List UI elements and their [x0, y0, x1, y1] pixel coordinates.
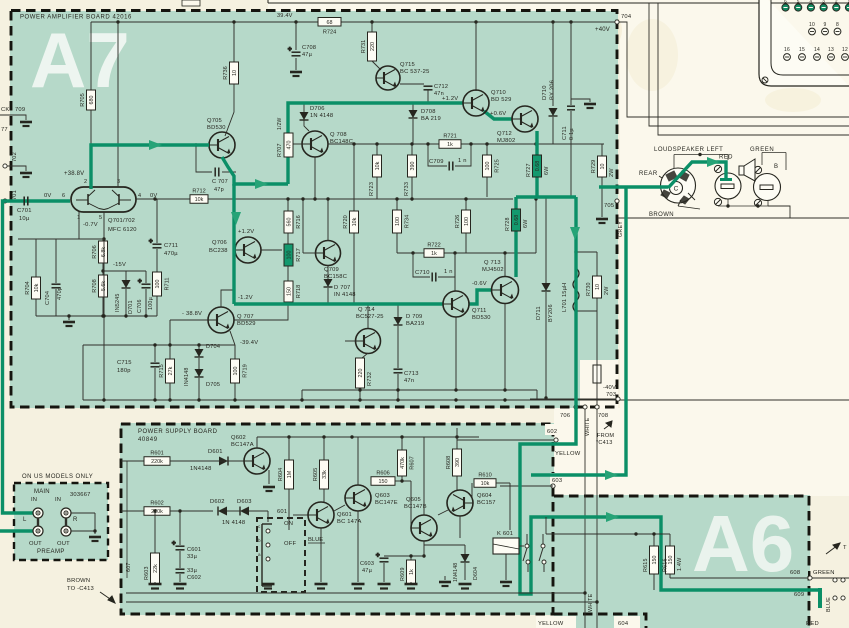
node R722 right: [453, 251, 456, 254]
transistor Q705: [209, 132, 235, 158]
wire Q605 collector up: [423, 505, 425, 515]
wire page border top: [268, 2, 849, 4]
svg-text:C: C: [674, 186, 679, 193]
diode D603: [240, 507, 249, 516]
svg-text:PREAMP: PREAMP: [37, 549, 65, 555]
svg-text:POWER SUPPLY BOARD: POWER SUPPLY BOARD: [138, 429, 218, 435]
resistor R712 10k: [190, 189, 208, 204]
svg-text:1k: 1k: [431, 251, 437, 257]
svg-text:C713: C713: [404, 371, 419, 377]
svg-text:BROWN: BROWN: [649, 212, 674, 218]
wire Q710 collector: [475, 22, 477, 91]
ground C711: [584, 104, 596, 108]
svg-text:MAIN: MAIN: [34, 489, 50, 495]
wire Q604 emitter: [459, 516, 461, 538]
node R715: [168, 343, 171, 346]
node pin5 rail: [102, 314, 105, 317]
node R609: [409, 554, 412, 557]
node jack: [93, 529, 96, 532]
node rail C706: [144, 314, 147, 317]
wire L701-R730 top: [576, 251, 597, 253]
node bottom rail 199: [197, 398, 200, 401]
resistor R730 10: [593, 276, 602, 298]
ground input stage: [63, 322, 75, 326]
terminal 703: [616, 397, 620, 401]
wire rail ground drop: [68, 316, 70, 320]
panel mounting screw: [762, 77, 768, 83]
diode D602: [218, 507, 227, 516]
wire red plug tip (green): [720, 178, 732, 181]
capacitor C713 47n: [394, 369, 403, 373]
panel terminal (green) 4: [820, 4, 827, 11]
wire R616 top: [669, 534, 671, 546]
svg-text:BY 206: BY 206: [550, 80, 556, 100]
svg-text:33µ: 33µ: [187, 554, 198, 560]
svg-text:MJ4502: MJ4502: [482, 267, 504, 273]
svg-text:22k: 22k: [153, 564, 159, 573]
svg-text:703: 703: [606, 392, 616, 398]
svg-text:+: +: [138, 279, 142, 285]
node C711e top: [153, 197, 156, 200]
wire contact down: [527, 564, 529, 572]
wire D604 bottom: [464, 563, 466, 580]
wire R718 to Q707 base: [234, 302, 288, 320]
svg-text:R604: R604: [278, 468, 284, 481]
wire R605 bottom: [323, 489, 325, 502]
svg-text:708: 708: [598, 413, 608, 419]
terminal 603: [551, 484, 555, 488]
transistor Q601: [308, 502, 334, 528]
svg-text:C711: C711: [562, 126, 568, 140]
wire leader green bracket: [762, 152, 786, 154]
wire contact up: [526, 534, 528, 544]
panel terminal 12: [842, 54, 849, 61]
wire Q602 emitter: [268, 470, 270, 484]
wire R731 to Q715: [372, 61, 381, 70]
resistor R723 10k: [373, 155, 382, 177]
svg-text:b: b: [258, 538, 261, 543]
wire C601-C602: [179, 551, 181, 568]
wire C602 bottom: [179, 574, 181, 582]
node bottom rail 170: [168, 398, 171, 401]
node bottom rail 302: [300, 398, 303, 401]
wire R719 bottom: [234, 383, 236, 400]
wire D707 bottom: [327, 288, 329, 304]
wire panel lead B: [649, 3, 849, 126]
screw terminal: [714, 198, 721, 205]
wire C715 top: [154, 345, 156, 362]
panel terminal (green) 1: [782, 4, 789, 11]
svg-text:R609: R609: [400, 567, 406, 581]
svg-text:L701 15µH: L701 15µH: [562, 283, 568, 312]
wire rail drop: [301, 390, 303, 400]
svg-text:Q602: Q602: [231, 435, 246, 441]
wire R733 top: [411, 144, 413, 155]
svg-text:608: 608: [790, 570, 800, 576]
wire R705 top: [90, 22, 92, 90]
arrow from C413: [604, 421, 612, 429]
svg-text:10: 10: [595, 284, 601, 290]
svg-text:R719: R719: [243, 364, 249, 377]
wire pin3 to +40V rail: [117, 22, 119, 187]
resistor R729 10: [591, 156, 607, 177]
panel terminal 16: [784, 54, 791, 61]
node bottom rail 155: [153, 398, 156, 401]
svg-text:BD530: BD530: [207, 125, 226, 131]
wire Q709 base: [303, 252, 316, 254]
wire from terminal 704 to edge: [617, 22, 849, 117]
svg-text:BA 219: BA 219: [421, 116, 441, 122]
node rail D701: [124, 314, 127, 317]
signal arrow A6: [606, 512, 619, 522]
wire stub: [370, 480, 372, 482]
svg-text:D604: D604: [473, 567, 479, 580]
svg-text:150: 150: [652, 556, 658, 565]
svg-text:602: 602: [547, 429, 557, 435]
wire -1.2V rail (green): [234, 302, 443, 305]
svg-text:R731: R731: [361, 40, 367, 53]
svg-text:470k: 470k: [400, 457, 406, 469]
svg-text:15: 15: [799, 47, 805, 53]
relay contact: [525, 544, 529, 548]
resistor R715 27k: [159, 359, 175, 383]
diode D710 BY206: [549, 108, 558, 116]
svg-text:1.4W: 1.4W: [677, 557, 683, 571]
wire D706: [304, 103, 309, 131]
node Q709 c: [326, 197, 329, 200]
svg-text:47n: 47n: [404, 378, 414, 384]
svg-text:C708: C708: [302, 45, 316, 51]
wire Q604 base up: [471, 483, 473, 499]
wire R601 in: [121, 460, 144, 462]
wire R730 top: [596, 252, 598, 276]
wire R717-R718: [287, 266, 289, 281]
node ground drop: [67, 314, 70, 317]
svg-text:R726: R726: [455, 215, 461, 228]
panel terminal 10: [809, 28, 816, 35]
diode D708 BA219: [409, 110, 418, 118]
wire Q707 collector: [221, 290, 234, 307]
stain blotch 1: [626, 19, 678, 91]
svg-text:16: 16: [784, 47, 790, 53]
svg-text:-0.7V: -0.7V: [83, 222, 98, 228]
wire r732: [359, 388, 361, 390]
wire lower mid line: [83, 344, 235, 346]
wire jack link R: [65, 518, 67, 526]
resistor R716 560: [284, 211, 302, 233]
diode D701 IN5245: [122, 280, 131, 288]
resistor R610 10k: [474, 473, 496, 488]
wire psb long line 1: [126, 592, 585, 594]
svg-text:R616: R616: [663, 558, 669, 572]
wire R736 top: [233, 22, 235, 62]
diode D601 1N4148: [219, 457, 228, 466]
svg-text:IN 4148: IN 4148: [334, 292, 356, 298]
wire C709 right: [455, 145, 471, 166]
wire blue stub (green): [818, 588, 822, 608]
svg-text:REAR: REAR: [639, 171, 658, 177]
resistor R727 0.68 (highlighted): [533, 155, 542, 177]
svg-text:10k: 10k: [352, 217, 358, 226]
wire D708 top: [412, 103, 414, 110]
wire Q601 emitter: [320, 528, 322, 582]
wire Q715 emitter to C712: [400, 83, 424, 85]
svg-text:OUT: OUT: [29, 541, 42, 547]
terminal 704: [615, 20, 619, 24]
svg-text:+38.8V: +38.8V: [64, 171, 84, 177]
svg-text:Q711: Q711: [472, 308, 487, 314]
svg-text:R716: R716: [296, 215, 302, 228]
svg-text:*C413: *C413: [596, 440, 613, 446]
node C707 left: [194, 143, 197, 146]
wire R608 bottom: [456, 476, 458, 490]
svg-text:R705: R705: [80, 93, 86, 106]
svg-text:2: 2: [835, 0, 838, 4]
wire lower bias rail: [36, 315, 157, 317]
signal arrow 5: [605, 470, 618, 480]
svg-text:-0.6V: -0.6V: [472, 281, 487, 287]
node rail x372: [370, 20, 373, 23]
wire D709 bottom: [397, 326, 399, 368]
node rail x553: [551, 20, 554, 23]
svg-text:39.4V: 39.4V: [277, 13, 293, 19]
wire C711 top: [570, 22, 572, 105]
node Q713 c: [503, 251, 506, 254]
svg-text:709: 709: [15, 107, 25, 113]
svg-text:150: 150: [287, 287, 293, 296]
resistor R711 100: [153, 272, 171, 296]
svg-text:Q 707: Q 707: [237, 314, 254, 320]
resistor R718 150: [284, 281, 302, 302]
transistor Q707: [208, 307, 234, 333]
arrow brown: [100, 592, 115, 603]
resistor R601 220k: [144, 451, 170, 466]
resistor R724 68: [318, 18, 341, 36]
terminal spk2: [841, 578, 845, 582]
ground symbol psb 268: [262, 584, 275, 589]
svg-text:D708: D708: [421, 109, 436, 115]
white page area above A7: [268, 0, 628, 11]
svg-text:704: 704: [621, 14, 632, 20]
svg-text:10: 10: [809, 22, 815, 28]
wire D704 top: [198, 345, 200, 349]
wire C706 bottom: [145, 289, 147, 316]
svg-text:6: 6: [784, 0, 787, 4]
wire preamp out (green): [0, 529, 36, 532]
dual transistor Q701/Q702 MFC6120: [71, 187, 136, 212]
capacitor C711 470µ: [149, 239, 162, 248]
svg-text:5: 5: [99, 215, 102, 221]
wire R734 top: [396, 199, 398, 210]
wire to Q706 (green): [232, 184, 235, 304]
transistor Q710: [463, 90, 489, 116]
wire R726 bottom: [465, 233, 467, 253]
wire to D604: [424, 544, 465, 546]
node A6: [634, 532, 637, 535]
svg-text:R708: R708: [92, 279, 98, 292]
wire R704 top: [35, 239, 37, 277]
svg-text:12: 12: [842, 47, 848, 53]
node mid rail 398: [396, 388, 399, 391]
svg-text:R706: R706: [92, 245, 98, 258]
wire D705 bottom: [198, 378, 200, 400]
resistor R720 10k: [343, 211, 359, 233]
wire page border corner: [267, 0, 269, 3]
wire R615 top: [653, 534, 655, 546]
node L701 top: [574, 250, 577, 253]
wire C709 left: [428, 145, 447, 166]
wire Q603 collector: [357, 437, 359, 485]
wire R726 top: [465, 199, 467, 210]
svg-text:BC157: BC157: [477, 500, 496, 506]
terminal 705: [615, 199, 619, 203]
svg-text:- 38.8V: - 38.8V: [182, 311, 202, 317]
svg-text:R711: R711: [165, 278, 171, 291]
svg-text:6W: 6W: [544, 166, 550, 175]
wire Q709 emitter: [327, 265, 329, 279]
wire contact up 2: [542, 534, 544, 544]
preamp jack: [61, 508, 71, 518]
wire A7 bottom rail: [83, 399, 618, 401]
resistor R733 390: [408, 155, 417, 177]
wire jack R in: [71, 512, 95, 514]
transistor Q708: [302, 131, 328, 157]
ground 702: [20, 173, 32, 177]
resistor R708 5.6k: [92, 275, 108, 297]
svg-text:0.1µ: 0.1µ: [569, 128, 575, 140]
A6 board dashed border: [554, 496, 809, 628]
svg-text:1N 4148: 1N 4148: [310, 113, 333, 119]
wire R719 top: [234, 345, 236, 359]
svg-text:470µ: 470µ: [164, 251, 178, 257]
resistor R616 150: [666, 546, 675, 574]
svg-text:603: 603: [552, 478, 562, 484]
board: power supply area: [120, 423, 554, 615]
svg-text:R729: R729: [591, 160, 597, 173]
node R716: [286, 197, 289, 200]
tab box at page top: [182, 0, 200, 6]
wire brown: [618, 217, 849, 219]
wire R725 bottom: [486, 177, 488, 197]
wire C708 top: [295, 22, 297, 50]
capacitor C701 10µ: [24, 197, 28, 206]
node bottom rail 398: [396, 398, 399, 401]
wire pin5 down: [103, 212, 105, 239]
svg-text:R: R: [73, 517, 78, 523]
signal arrow 2: [255, 179, 268, 189]
svg-text:0.68: 0.68: [535, 161, 541, 172]
wire R608 top: [456, 428, 458, 449]
svg-text:705: 705: [604, 203, 614, 209]
svg-text:40849: 40849: [138, 437, 158, 443]
capacitor C709 1n: [449, 162, 453, 171]
svg-text:Q604: Q604: [477, 493, 493, 499]
wire Q707 emitter: [230, 331, 235, 345]
wire Q714 emitter: [362, 353, 368, 358]
inductor L701 15µH: [573, 268, 579, 312]
wire Q601 base: [293, 514, 308, 516]
svg-text:BD529: BD529: [237, 321, 256, 327]
capacitor C715 180p: [151, 363, 160, 367]
svg-text:C602: C602: [187, 575, 201, 581]
transistor Q711: [443, 291, 469, 317]
svg-text:100: 100: [485, 162, 491, 171]
terminal 706: [583, 405, 587, 409]
svg-text:C709: C709: [429, 159, 444, 165]
terminal spk1: [833, 578, 837, 582]
fuse F701: [593, 365, 601, 383]
wire bias line: [18, 238, 104, 240]
ground symbol psb 155: [149, 584, 162, 589]
svg-text:BC 537-25: BC 537-25: [400, 69, 430, 75]
panel terminal (green) 2: [795, 4, 802, 11]
svg-text:1M: 1M: [287, 470, 293, 478]
svg-text:C711: C711: [164, 243, 178, 249]
wire leader red: [727, 155, 729, 161]
wire R720 top: [353, 144, 355, 211]
node D704: [197, 343, 200, 346]
svg-text:C 707: C 707: [212, 179, 228, 185]
svg-text:10µ: 10µ: [19, 216, 30, 222]
node rail x118: [116, 20, 119, 23]
panel terminal 13: [828, 54, 835, 61]
wire C706 top: [145, 271, 147, 283]
terminal spk3: [833, 596, 837, 600]
node C601: [178, 509, 181, 512]
node white line 2: [595, 600, 598, 603]
wire Q708 emitter drop: [314, 157, 316, 199]
signal arrow 3: [231, 212, 241, 225]
node psb top 457: [455, 435, 458, 438]
svg-text:WHITE: WHITE: [585, 417, 591, 436]
wire Q705 emitter (green): [222, 157, 288, 184]
svg-text:R725: R725: [495, 159, 501, 172]
svg-text:1 n: 1 n: [458, 158, 467, 164]
wire A6 drop: [545, 517, 547, 534]
svg-text:R606: R606: [376, 471, 389, 477]
svg-text:1k: 1k: [409, 569, 415, 575]
wire C708 bottom: [295, 58, 297, 70]
transistor Q713: [492, 277, 519, 304]
resistor R705 680: [80, 90, 96, 110]
terminal 701: [3, 199, 7, 203]
svg-text:470: 470: [287, 141, 293, 150]
svg-text:C603: C603: [360, 561, 374, 567]
wire Q714 collector: [367, 304, 369, 328]
svg-text:A7: A7: [30, 16, 130, 104]
wire 702: [7, 166, 26, 171]
resistor R603 22k: [151, 553, 160, 584]
svg-text:GREEN: GREEN: [813, 570, 835, 576]
svg-text:1N4148: 1N4148: [453, 563, 459, 582]
signal arrow red: [707, 157, 720, 167]
wire 607: [126, 461, 128, 578]
wire +40V rail: [91, 21, 617, 23]
wire R707 branch (green): [288, 103, 463, 184]
stain blotch 3: [765, 88, 821, 112]
svg-text:D711: D711: [536, 306, 542, 320]
svg-text:MJ802: MJ802: [497, 138, 515, 144]
relay K601: [493, 538, 519, 554]
power supply board dashed border: [121, 424, 553, 614]
node L701 bottom: [574, 309, 577, 312]
wire C711 ground hook: [571, 99, 590, 102]
wire Q713 emitter down: [504, 303, 506, 390]
white label box 608: [788, 566, 808, 576]
signal arrow 4: [570, 227, 580, 240]
svg-text:Q 714: Q 714: [358, 307, 375, 313]
wire 603 return to grey (green): [531, 187, 626, 475]
